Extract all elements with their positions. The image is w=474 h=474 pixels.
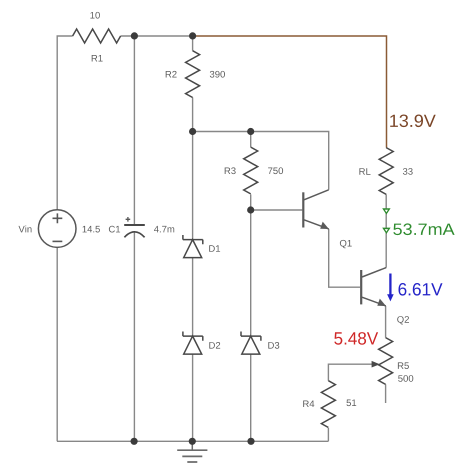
wire: bottom rail [57,440,328,442]
designator R4 [303,401,314,408]
wire: R3 top lead [250,132,252,148]
annotation: node voltage 5.48V [334,332,378,345]
wire: Vin bottom to bottom rail [56,247,58,441]
wire: R4 bottom lead [327,428,329,441]
wire: highlighted output net, node B to RL top (brown) [193,36,387,148]
designator R5 [398,362,409,369]
wire: node C to Q1 collector drop [193,132,329,190]
resistor RL [379,148,393,195]
designator C1 [109,226,120,233]
node B (R2/output net junction) [189,32,196,39]
annotation: voltage 6.61V [399,283,443,296]
value 750 of R3 [268,167,283,174]
ground [191,441,193,450]
node D (R3 bottom / Q1 base / D3) [247,206,254,213]
wire: R1 right lead through node A to node B [121,35,193,37]
designator R1 [92,55,103,62]
voltage source Vin [38,210,76,248]
wire: R3 bottom to node D [250,194,252,210]
potentiometer R5 [379,338,393,385]
wire: Q2 emitter to R5 top [385,306,387,338]
wire: node D to Q1 base [251,209,303,211]
node C1 bottom on ground rail [131,438,138,445]
wire: R2 bottom to node C [192,98,194,132]
transistor Q2 (NPN) [360,270,362,304]
designator R3 [225,167,236,174]
value 500 of R5 [398,375,413,382]
transistor Q1 (NPN) [302,192,304,227]
wire: D3 anode to bottom rail [250,354,252,441]
annotation: node voltage 13.9V [390,115,436,128]
wire: Q1 emitter to Q2 base [329,229,360,287]
annotation: voltage drop arrow (blue) [389,274,391,296]
value 10 of R1 [90,12,100,19]
node C (R2 bottom / D1 / R3 net) [189,128,196,135]
annotation: current 53.7mA [393,223,454,235]
designator Q1 [340,240,352,248]
wire: left rail Vin top to R1 left lead [57,36,72,210]
resistor R3 [244,147,258,194]
node ground rail center [189,438,196,445]
node D3 bottom on ground rail [247,438,254,445]
node D1-net junction at R3 top [247,128,254,135]
value 14.5 of Vin [83,226,100,233]
wire: node A to C1 top [133,36,135,225]
capacitor C1 (polarized) [124,224,145,226]
wire: node D to D3 cathode [250,210,252,336]
value 4.7m of C1 [154,226,174,233]
designator Vin [19,226,32,233]
wire: node B to R2 top [192,36,194,51]
wire: RL bottom to Q2 collector [385,194,387,267]
node A (R1/C1 junction) [131,32,138,39]
designator Q2 [397,316,409,324]
annotation: current flow arrows (green) [382,208,390,214]
resistor R2 [186,51,200,98]
designator D2 [209,342,220,349]
value 51 of R4 [347,400,357,407]
potentiometer R5 wiper arrow [372,361,380,368]
wire: D1 anode to D2 cathode [192,258,194,337]
resistor R4 [321,381,335,428]
wire: D2 anode to bottom rail [192,354,194,441]
wire: C1 bottom to bottom rail [133,232,135,441]
wire: R4 top lead to R5 wiper line [328,364,372,381]
value 390 of R2 [210,71,225,78]
zener diode D1 [183,235,203,244]
value 33 of RL [403,168,413,175]
resistor R1 [73,29,121,43]
designator D3 [268,342,279,349]
zener diode D3 [241,332,261,341]
zener diode D2 [183,332,203,341]
wire: node C to D1 cathode [192,132,194,240]
designator R2 [166,71,177,78]
designator D1 [209,245,220,252]
designator RL [359,168,370,175]
wire: R5 bottom open stub [385,384,387,403]
